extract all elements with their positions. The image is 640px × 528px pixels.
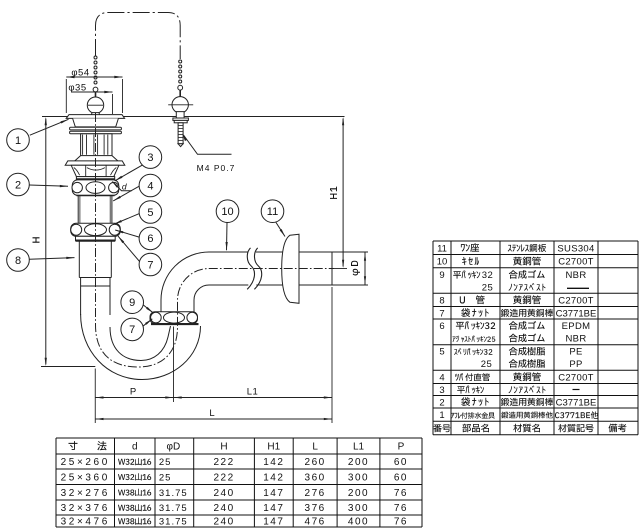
svg-text:260: 260 <box>305 457 326 468</box>
svg-text:3: 3 <box>439 385 444 396</box>
svg-text:NBR: NBR <box>566 270 587 281</box>
svg-text:276: 276 <box>305 488 326 499</box>
svg-text:222: 222 <box>213 472 234 483</box>
svg-text:1: 1 <box>439 410 444 421</box>
svg-text:d: d <box>122 182 127 192</box>
svg-text:P: P <box>130 387 136 398</box>
svg-text:8: 8 <box>439 295 444 306</box>
svg-text:200: 200 <box>348 488 369 499</box>
svg-text:C2700T: C2700T <box>558 372 594 383</box>
svg-text:32: 32 <box>482 270 494 281</box>
svg-text:H1: H1 <box>267 442 280 453</box>
svg-text:240: 240 <box>213 503 234 514</box>
svg-text:C2700T: C2700T <box>558 295 594 306</box>
svg-text:25×260: 25×260 <box>61 457 110 468</box>
svg-text:200: 200 <box>348 457 369 468</box>
svg-text:L: L <box>312 442 318 453</box>
svg-text:376: 376 <box>305 503 326 514</box>
svg-text:PE: PE <box>569 347 582 358</box>
svg-text:25×360: 25×360 <box>61 472 110 483</box>
svg-text:10: 10 <box>437 257 448 268</box>
svg-text:147: 147 <box>263 517 284 528</box>
svg-text:25: 25 <box>159 457 172 468</box>
svg-text:5: 5 <box>147 207 153 219</box>
svg-text:76: 76 <box>394 488 408 499</box>
svg-text:4: 4 <box>147 180 153 192</box>
svg-text:9: 9 <box>439 270 444 281</box>
svg-text:25: 25 <box>482 282 494 293</box>
svg-text:PP: PP <box>569 359 582 370</box>
svg-text:SUS304: SUS304 <box>557 243 594 254</box>
svg-text:142: 142 <box>263 472 284 483</box>
svg-text:10: 10 <box>221 206 233 218</box>
svg-text:31.75: 31.75 <box>159 503 188 514</box>
svg-text:240: 240 <box>213 488 234 499</box>
svg-text:32×276: 32×276 <box>61 488 110 499</box>
svg-text:240: 240 <box>213 517 234 528</box>
svg-text:9: 9 <box>129 297 135 309</box>
svg-text:300: 300 <box>348 503 369 514</box>
svg-text:25: 25 <box>481 359 493 370</box>
svg-text:4: 4 <box>439 372 444 383</box>
svg-text:142: 142 <box>263 457 284 468</box>
svg-text:32×376: 32×376 <box>61 503 110 514</box>
svg-text:300: 300 <box>348 472 369 483</box>
svg-text:360: 360 <box>305 472 326 483</box>
svg-text:d: d <box>132 442 138 453</box>
svg-text:H: H <box>220 442 227 453</box>
svg-text:L: L <box>209 408 214 419</box>
svg-text:NBR: NBR <box>566 333 587 344</box>
svg-text:6: 6 <box>147 233 153 245</box>
svg-text:400: 400 <box>348 517 369 528</box>
svg-text:1: 1 <box>15 135 21 147</box>
svg-text:EPDM: EPDM <box>562 321 591 332</box>
svg-text:32×476: 32×476 <box>61 517 110 528</box>
svg-text:2: 2 <box>439 397 444 408</box>
svg-text:476: 476 <box>305 517 326 528</box>
svg-text:C3771BE: C3771BE <box>556 397 597 408</box>
svg-text:C2700T: C2700T <box>558 257 594 268</box>
svg-text:76: 76 <box>394 517 408 528</box>
svg-text:147: 147 <box>263 503 284 514</box>
svg-text:φD: φD <box>166 442 180 453</box>
svg-text:6: 6 <box>439 321 444 332</box>
svg-text:L1: L1 <box>353 442 365 453</box>
svg-text:31.75: 31.75 <box>159 488 188 499</box>
svg-text:25: 25 <box>159 472 172 483</box>
svg-text:31.75: 31.75 <box>159 517 188 528</box>
svg-text:11: 11 <box>267 206 278 218</box>
svg-text:60: 60 <box>394 457 408 468</box>
svg-text:11: 11 <box>437 243 447 254</box>
svg-text:P: P <box>398 442 405 453</box>
svg-text:2: 2 <box>15 179 21 191</box>
svg-text:3: 3 <box>147 152 153 164</box>
svg-text:8: 8 <box>15 255 21 267</box>
svg-text:60: 60 <box>394 472 408 483</box>
svg-text:147: 147 <box>263 488 284 499</box>
svg-text:M4 P0.7: M4 P0.7 <box>197 163 236 173</box>
svg-text:L1: L1 <box>247 387 259 398</box>
svg-text:7: 7 <box>147 259 153 271</box>
svg-text:76: 76 <box>394 503 408 514</box>
svg-text:7: 7 <box>439 308 444 319</box>
svg-text:C3771BE: C3771BE <box>556 308 597 319</box>
svg-text:5: 5 <box>439 347 444 358</box>
svg-text:7: 7 <box>129 324 135 336</box>
svg-text:222: 222 <box>213 457 234 468</box>
